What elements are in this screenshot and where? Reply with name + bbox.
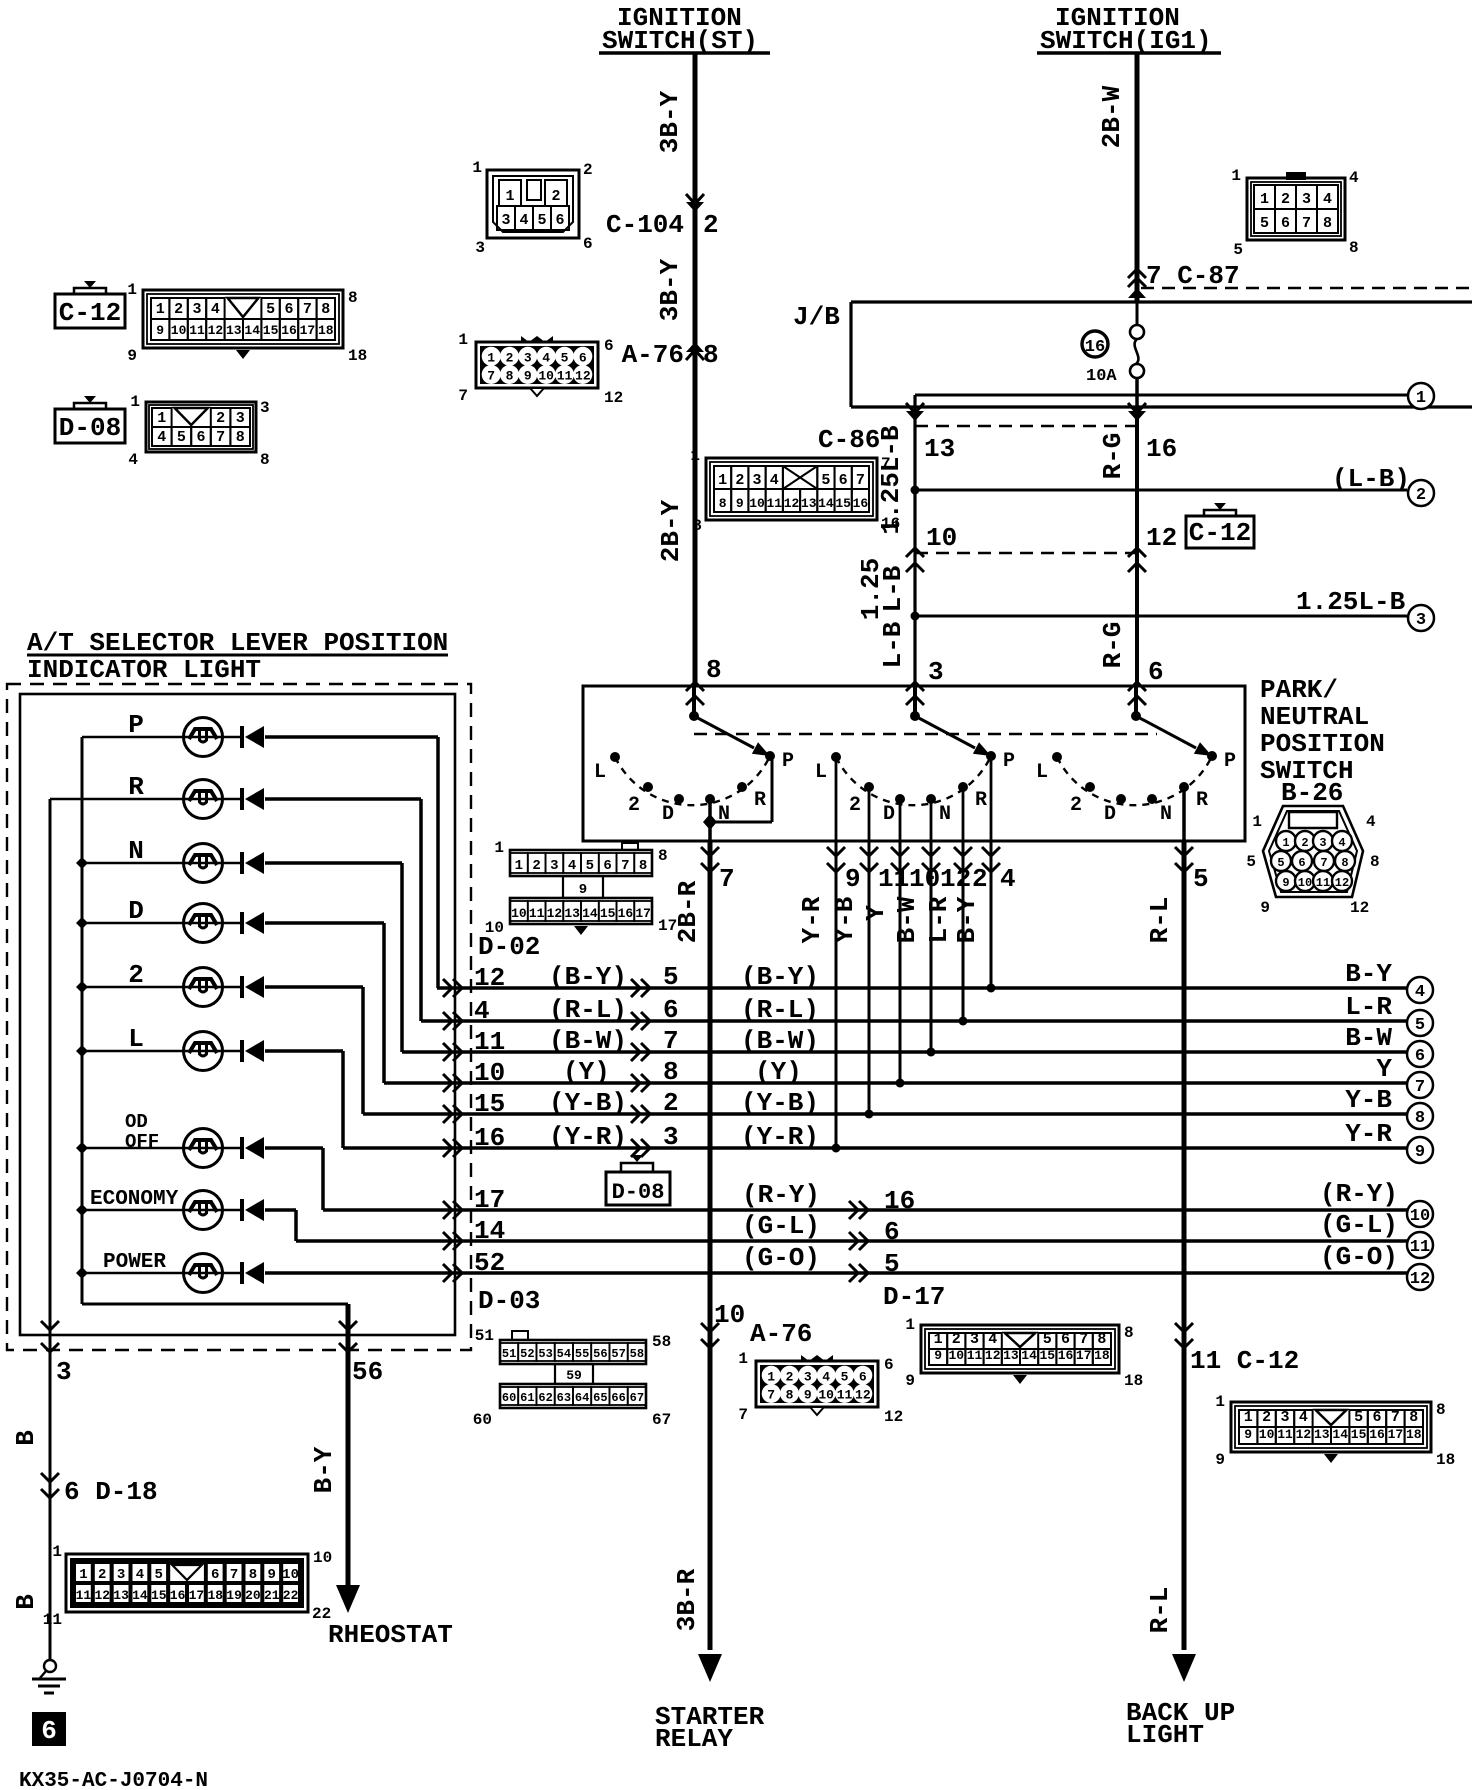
- svg-text:P: P: [1003, 750, 1015, 773]
- svg-text:7: 7: [1320, 856, 1327, 870]
- bus wire to circled 6: [402, 1050, 1407, 1054]
- svg-text:1: 1: [1282, 836, 1289, 850]
- svg-text:9: 9: [736, 496, 744, 511]
- svg-text:12: 12: [784, 496, 800, 511]
- svg-text:4: 4: [822, 1369, 830, 1384]
- svg-text:64: 64: [575, 1391, 589, 1405]
- svg-text:3: 3: [970, 1331, 979, 1348]
- wire pin10 Y: [899, 841, 902, 1083]
- svg-text:16: 16: [1058, 1348, 1074, 1363]
- svg-text:6: 6: [41, 1716, 57, 1746]
- svg-text:C-12: C-12: [1189, 518, 1251, 548]
- svg-text:(Y): (Y): [755, 1057, 802, 1087]
- svg-text:17: 17: [1076, 1348, 1092, 1363]
- svg-text:11: 11: [766, 496, 782, 511]
- svg-text:16: 16: [881, 515, 900, 533]
- crossing marks 10/12: [906, 548, 924, 557]
- node circled 7: [1407, 1072, 1433, 1098]
- svg-text:4: 4: [1338, 836, 1345, 850]
- svg-text:3B-Y: 3B-Y: [655, 90, 685, 153]
- connector symbol C-12 top-left: [84, 281, 96, 288]
- svg-text:(R-Y): (R-Y): [1320, 1179, 1398, 1209]
- svg-text:67: 67: [630, 1391, 644, 1405]
- svg-text:14: 14: [582, 906, 598, 921]
- svg-text:1: 1: [1244, 1409, 1253, 1426]
- svg-text:9: 9: [934, 1348, 942, 1363]
- svg-text:3: 3: [1280, 1409, 1289, 1426]
- wire D drop: [382, 923, 386, 1083]
- wire pin2 L-R: [962, 841, 965, 1021]
- svg-text:RHEOSTAT: RHEOSTAT: [328, 1620, 453, 1650]
- inline connector D-08: [631, 1155, 643, 1162]
- svg-text:16: 16: [618, 906, 634, 921]
- wire pin4 B-Y: [990, 841, 993, 988]
- svg-text:18: 18: [1094, 1348, 1110, 1363]
- pin exit marks below PNP switch: [701, 847, 719, 856]
- svg-text:13: 13: [1314, 1427, 1330, 1442]
- svg-text:51: 51: [502, 1347, 516, 1361]
- svg-text:NEUTRAL: NEUTRAL: [1260, 702, 1369, 732]
- svg-text:12: 12: [208, 323, 224, 338]
- svg-text:5: 5: [561, 350, 569, 365]
- svg-text:17: 17: [635, 906, 651, 921]
- svg-text:LIGHT: LIGHT: [1126, 1720, 1204, 1750]
- svg-text:L-R: L-R: [924, 896, 954, 943]
- svg-text:5: 5: [841, 1369, 849, 1384]
- svg-text:4: 4: [568, 858, 576, 874]
- node circled 4: [1407, 977, 1433, 1003]
- svg-text:D-08: D-08: [612, 1180, 665, 1205]
- svg-text:2: 2: [849, 794, 861, 817]
- svg-text:7: 7: [230, 1567, 238, 1583]
- svg-text:D-08: D-08: [59, 413, 121, 443]
- node circled 12: [1407, 1264, 1433, 1290]
- svg-text:8: 8: [692, 517, 702, 535]
- svg-text:51: 51: [475, 1327, 494, 1345]
- svg-text:5: 5: [1277, 856, 1284, 870]
- svg-text:RELAY: RELAY: [655, 1724, 733, 1754]
- switch1 N/P output wiring: [708, 799, 712, 841]
- svg-text:B: B: [11, 1430, 41, 1446]
- crossing 6 D-18: [41, 1473, 59, 1482]
- crossing C-104 pin 2: [686, 202, 704, 212]
- svg-text:8: 8: [1124, 1324, 1134, 1342]
- switch rotor 3: [1134, 686, 1138, 716]
- svg-text:7: 7: [303, 301, 312, 318]
- svg-text:INDICATOR LIGHT: INDICATOR LIGHT: [27, 655, 261, 685]
- svg-text:N: N: [1160, 803, 1172, 826]
- svg-text:12: 12: [1146, 523, 1177, 553]
- svg-text:10: 10: [1259, 1427, 1275, 1442]
- svg-text:11: 11: [43, 1611, 62, 1629]
- svg-text:POSITION: POSITION: [1260, 729, 1385, 759]
- svg-text:R-L: R-L: [1145, 1587, 1175, 1634]
- svg-text:12: 12: [985, 1348, 1001, 1363]
- node circled 5: [1407, 1010, 1433, 1036]
- svg-text:2: 2: [952, 1331, 961, 1348]
- junction dot line2: [911, 486, 920, 495]
- svg-text:67: 67: [652, 1411, 671, 1429]
- wire R drop: [419, 799, 423, 1021]
- svg-text:21: 21: [264, 1588, 280, 1603]
- svg-text:9: 9: [268, 1567, 276, 1583]
- svg-text:5: 5: [1193, 864, 1209, 894]
- svg-text:6: 6: [1281, 215, 1290, 232]
- dashed harness box: [7, 684, 471, 1350]
- svg-text:12: 12: [575, 369, 591, 384]
- svg-text:1: 1: [1252, 813, 1262, 831]
- wire ECONOMY drop: [294, 1210, 298, 1241]
- svg-text:8: 8: [1349, 239, 1359, 257]
- svg-text:16: 16: [1085, 338, 1105, 357]
- svg-text:9: 9: [579, 882, 587, 898]
- svg-text:6: 6: [1298, 856, 1305, 870]
- svg-text:3: 3: [56, 1357, 72, 1387]
- diode D: [265, 921, 384, 925]
- svg-text:62: 62: [538, 1391, 552, 1405]
- svg-text:15: 15: [1039, 1348, 1055, 1363]
- svg-text:2: 2: [628, 794, 640, 817]
- svg-text:13: 13: [113, 1588, 129, 1603]
- svg-text:7 C-87: 7 C-87: [1146, 261, 1240, 291]
- svg-text:L: L: [128, 1024, 144, 1054]
- svg-text:15: 15: [474, 1089, 505, 1119]
- svg-text:4: 4: [1000, 864, 1016, 894]
- node circled 9: [1407, 1137, 1433, 1163]
- svg-text:66: 66: [611, 1391, 625, 1405]
- svg-text:10: 10: [818, 1388, 834, 1403]
- svg-text:N: N: [128, 836, 144, 866]
- svg-text:N: N: [939, 803, 951, 826]
- wire R-L pin5 to back up light: [1182, 841, 1187, 1650]
- R lamp return bus: [49, 799, 52, 1661]
- svg-text:14: 14: [1332, 1427, 1348, 1442]
- wire 2B-W ignition IG1: [1135, 53, 1140, 302]
- svg-text:11: 11: [1277, 1427, 1293, 1442]
- svg-text:17: 17: [1388, 1427, 1404, 1442]
- svg-text:1: 1: [487, 350, 495, 365]
- page number 6: [32, 1712, 66, 1746]
- svg-text:12: 12: [1410, 1270, 1430, 1289]
- svg-text:5: 5: [586, 858, 594, 874]
- svg-text:3: 3: [1302, 191, 1311, 208]
- svg-text:1.25L-B: 1.25L-B: [1296, 587, 1406, 617]
- svg-text:Y-B: Y-B: [1345, 1085, 1392, 1115]
- connector B-26 pin diagram: [1263, 806, 1363, 897]
- svg-text:8: 8: [260, 451, 270, 469]
- switch3 R contact drop: [1182, 787, 1186, 841]
- svg-text:11: 11: [1410, 1238, 1430, 1257]
- svg-text:Y-R: Y-R: [797, 896, 827, 943]
- svg-text:8: 8: [1436, 1401, 1446, 1419]
- svg-text:61: 61: [520, 1391, 534, 1405]
- svg-text:60: 60: [473, 1411, 492, 1429]
- svg-text:B-Y: B-Y: [1345, 959, 1392, 989]
- svg-text:18: 18: [1124, 1372, 1143, 1390]
- svg-text:1: 1: [690, 447, 700, 465]
- wire 56 B-Y to rheostat: [346, 1304, 351, 1592]
- svg-text:9: 9: [1282, 876, 1289, 890]
- crossing marks at J/B exit: [906, 411, 924, 421]
- svg-text:16: 16: [170, 1588, 186, 1603]
- wire 1.25L-B (C-86 pin13 branch): [913, 395, 916, 686]
- svg-text:15: 15: [600, 906, 616, 921]
- svg-text:8: 8: [639, 858, 647, 874]
- svg-text:12: 12: [94, 1588, 110, 1603]
- wire (L-B) to circled 2: [915, 489, 1407, 492]
- connector D-17: [921, 1325, 1119, 1373]
- svg-text:7: 7: [767, 1388, 775, 1403]
- svg-text:2: 2: [128, 960, 144, 990]
- svg-text:56: 56: [352, 1357, 383, 1387]
- svg-text:KX35-AC-J0704-N: KX35-AC-J0704-N: [19, 1770, 208, 1790]
- svg-text:10: 10: [926, 523, 957, 553]
- svg-text:8: 8: [663, 1057, 679, 1087]
- svg-text:13: 13: [226, 323, 242, 338]
- svg-text:9: 9: [1244, 1427, 1252, 1442]
- svg-text:11: 11: [557, 369, 573, 384]
- svg-text:6: 6: [884, 1217, 900, 1247]
- fuse 16 (10A): [1136, 302, 1139, 327]
- svg-text:5: 5: [155, 1567, 163, 1583]
- svg-text:52: 52: [520, 1347, 534, 1361]
- svg-text:8: 8: [786, 1388, 794, 1403]
- bus wire to circled 9: [343, 1146, 1407, 1150]
- svg-text:10: 10: [538, 369, 554, 384]
- svg-text:2: 2: [786, 1369, 794, 1384]
- svg-text:8: 8: [1415, 1109, 1425, 1128]
- crossing 7 C-87: [1128, 278, 1146, 287]
- svg-text:17: 17: [658, 917, 677, 935]
- svg-text:16: 16: [884, 1186, 915, 1216]
- svg-text:2: 2: [174, 301, 183, 318]
- svg-text:16: 16: [853, 496, 869, 511]
- svg-text:17: 17: [300, 323, 316, 338]
- svg-text:D-17: D-17: [883, 1282, 945, 1312]
- svg-text:10: 10: [948, 1348, 964, 1363]
- svg-text:9: 9: [524, 369, 532, 384]
- svg-text:4: 4: [1415, 983, 1425, 1002]
- svg-text:16: 16: [1369, 1427, 1385, 1442]
- svg-text:1: 1: [767, 1369, 775, 1384]
- svg-text:5: 5: [884, 1249, 900, 1279]
- svg-text:POWER: POWER: [103, 1251, 166, 1274]
- arrow to STARTER RELAY: [698, 1654, 722, 1682]
- svg-text:17: 17: [474, 1185, 505, 1215]
- svg-text:12: 12: [474, 963, 505, 993]
- svg-text:5: 5: [1246, 853, 1256, 871]
- svg-text:(Y-B): (Y-B): [741, 1088, 819, 1118]
- svg-text:19: 19: [226, 1588, 242, 1603]
- node circled 11: [1407, 1232, 1433, 1258]
- svg-text:R-G: R-G: [1098, 433, 1128, 480]
- svg-text:D-03: D-03: [478, 1286, 540, 1316]
- connector C-104: [487, 170, 579, 238]
- svg-text:11: 11: [189, 323, 205, 338]
- diode R: [265, 797, 421, 801]
- svg-text:4: 4: [128, 451, 138, 469]
- svg-text:8: 8: [1341, 856, 1348, 870]
- svg-text:C-86: C-86: [818, 425, 880, 455]
- svg-text:11: 11: [529, 906, 545, 921]
- connector D-18 22pin: [66, 1554, 308, 1612]
- svg-text:8: 8: [506, 369, 514, 384]
- svg-text:8: 8: [703, 340, 719, 370]
- svg-text:10: 10: [714, 1300, 745, 1330]
- junction block J/B: [851, 300, 1472, 303]
- svg-text:52: 52: [474, 1248, 505, 1278]
- svg-text:D: D: [1104, 803, 1116, 826]
- svg-text:2B-R: 2B-R: [673, 880, 703, 943]
- svg-text:16: 16: [1146, 434, 1177, 464]
- svg-text:6: 6: [859, 1369, 867, 1384]
- svg-text:12: 12: [1296, 1427, 1312, 1442]
- svg-text:2: 2: [506, 350, 514, 365]
- wire L drop: [341, 1051, 345, 1148]
- svg-text:3: 3: [1416, 611, 1426, 630]
- svg-text:1: 1: [472, 159, 482, 177]
- svg-text:18: 18: [207, 1588, 223, 1603]
- svg-text:J/B: J/B: [793, 302, 840, 332]
- svg-text:6: 6: [555, 212, 564, 229]
- svg-text:1: 1: [1231, 167, 1241, 185]
- svg-text:5: 5: [1043, 1331, 1052, 1348]
- svg-text:1: 1: [738, 1350, 748, 1368]
- svg-text:L: L: [1036, 761, 1048, 784]
- svg-text:8: 8: [348, 289, 358, 307]
- svg-text:3: 3: [236, 410, 245, 427]
- connector D-08 8pin: [146, 402, 256, 452]
- svg-text:12: 12: [1350, 899, 1369, 917]
- svg-text:1: 1: [505, 188, 514, 205]
- bus wire to circled 5: [421, 1019, 1407, 1023]
- svg-text:(G-O): (G-O): [1320, 1242, 1398, 1272]
- svg-text:10A: 10A: [1086, 367, 1117, 386]
- node circled 1: [1408, 383, 1434, 409]
- svg-text:10: 10: [1410, 1207, 1430, 1226]
- svg-text:1: 1: [52, 1543, 62, 1561]
- svg-text:4: 4: [519, 212, 528, 229]
- svg-text:6: 6: [196, 429, 205, 446]
- svg-text:2: 2: [663, 1088, 679, 1118]
- wire pin12 B-W: [930, 841, 933, 1052]
- svg-text:2: 2: [216, 410, 225, 427]
- svg-text:8: 8: [321, 301, 330, 318]
- svg-text:L-R: L-R: [1345, 992, 1392, 1022]
- svg-text:12: 12: [604, 389, 623, 407]
- svg-text:16: 16: [474, 1123, 505, 1153]
- switch2 contact drops: [835, 757, 838, 841]
- svg-text:2: 2: [583, 161, 593, 179]
- svg-text:P: P: [128, 710, 144, 740]
- diode N: [265, 861, 402, 865]
- node circled 6: [1407, 1041, 1433, 1067]
- arrow to BACK UP LIGHT: [1172, 1654, 1196, 1682]
- wire 3B-Y ignition ST: [693, 53, 698, 686]
- svg-text:9: 9: [1260, 899, 1270, 917]
- svg-text:7: 7: [216, 429, 225, 446]
- svg-text:4: 4: [474, 996, 490, 1026]
- svg-text:3: 3: [260, 399, 270, 417]
- exit marks 3 and 56: [41, 1321, 59, 1330]
- svg-text:10: 10: [282, 1567, 299, 1583]
- svg-text:4: 4: [1299, 1409, 1308, 1426]
- svg-text:R: R: [975, 789, 987, 812]
- svg-text:6: 6: [1372, 1409, 1381, 1426]
- svg-text:(Y-R): (Y-R): [549, 1122, 627, 1152]
- svg-text:(R-Y): (R-Y): [742, 1180, 820, 1210]
- svg-text:6: 6: [663, 995, 679, 1025]
- svg-text:3: 3: [663, 1122, 679, 1152]
- svg-text:16: 16: [281, 323, 297, 338]
- svg-text:(B-W): (B-W): [549, 1026, 627, 1056]
- svg-text:(Y-R): (Y-R): [741, 1122, 819, 1152]
- wire 1.25L-B to circled 3: [915, 615, 1407, 618]
- svg-text:7: 7: [1391, 1409, 1400, 1426]
- node circled 10: [1407, 1201, 1433, 1227]
- svg-text:(G-O): (G-O): [742, 1243, 820, 1273]
- svg-text:15: 15: [263, 323, 279, 338]
- svg-text:12: 12: [1335, 876, 1349, 890]
- svg-text:11: 11: [967, 1348, 983, 1363]
- svg-text:B-W: B-W: [892, 896, 922, 943]
- svg-text:(B-Y): (B-Y): [549, 962, 627, 992]
- svg-text:Y-B: Y-B: [830, 896, 860, 943]
- svg-text:57: 57: [611, 1347, 625, 1361]
- svg-text:3: 3: [524, 350, 532, 365]
- svg-text:OD: OD: [125, 1111, 148, 1133]
- svg-text:53: 53: [538, 1347, 552, 1361]
- svg-text:6: 6: [604, 337, 614, 355]
- svg-text:12: 12: [547, 906, 563, 921]
- connector D-02: [510, 850, 652, 876]
- svg-text:13: 13: [801, 496, 817, 511]
- svg-text:17: 17: [189, 1588, 205, 1603]
- svg-text:7: 7: [1079, 1331, 1088, 1348]
- svg-text:5: 5: [1260, 215, 1269, 232]
- svg-text:10: 10: [485, 919, 504, 937]
- svg-text:L-B: L-B: [878, 565, 908, 612]
- svg-text:3: 3: [501, 212, 510, 229]
- node circled 2: [1408, 480, 1434, 506]
- svg-text:8: 8: [706, 655, 722, 685]
- svg-text:1: 1: [130, 393, 140, 411]
- svg-text:1: 1: [1215, 1393, 1225, 1411]
- svg-text:D: D: [662, 803, 674, 826]
- svg-text:7: 7: [881, 455, 891, 473]
- svg-text:14: 14: [474, 1216, 505, 1246]
- svg-text:65: 65: [593, 1391, 607, 1405]
- svg-text:3: 3: [475, 239, 485, 257]
- svg-text:10: 10: [474, 1058, 505, 1088]
- svg-text:14: 14: [132, 1588, 148, 1603]
- svg-text:6: 6: [884, 1356, 894, 1374]
- svg-text:1: 1: [494, 839, 504, 857]
- svg-text:9: 9: [156, 323, 164, 338]
- svg-text:15: 15: [151, 1588, 167, 1603]
- svg-text:D: D: [883, 803, 895, 826]
- svg-text:7: 7: [719, 864, 735, 894]
- svg-text:OFF: OFF: [125, 1131, 159, 1153]
- connector D-03: [500, 1340, 646, 1364]
- svg-text:3: 3: [753, 472, 762, 489]
- bus wire to circled 10: [323, 1208, 1407, 1212]
- diode L: [265, 1049, 343, 1053]
- svg-text:C-104: C-104: [606, 210, 684, 240]
- svg-text:11: 11: [76, 1588, 92, 1603]
- connector C-12 bottom-right: [1231, 1402, 1431, 1452]
- svg-text:5: 5: [1233, 241, 1243, 259]
